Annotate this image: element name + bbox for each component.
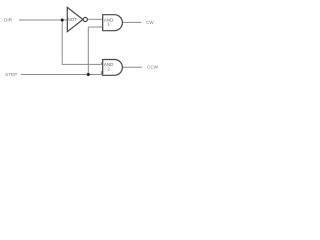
svg-text:CW: CW	[146, 20, 154, 25]
svg-text:NOT: NOT	[68, 17, 78, 22]
svg-text:CCW: CCW	[147, 65, 159, 70]
svg-text:DIR: DIR	[4, 18, 13, 23]
svg-text:STEP: STEP	[5, 72, 17, 77]
